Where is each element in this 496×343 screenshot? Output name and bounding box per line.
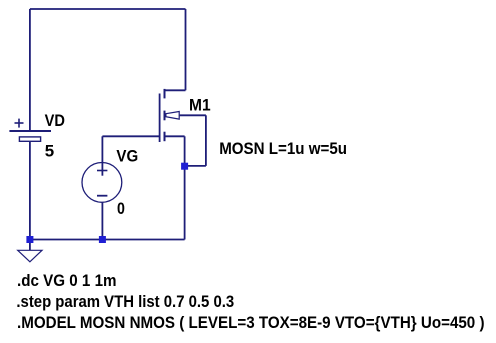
wire: drain stub horizontal xyxy=(164,89,186,91)
node: VG bottom junction xyxy=(99,236,106,243)
battery VD bottom plate rectangle xyxy=(19,137,40,141)
battery VD top plate xyxy=(9,130,51,132)
svg-text:5: 5 xyxy=(45,143,54,161)
wire: left vertical from battery top up xyxy=(29,9,31,131)
wire: bottom rail xyxy=(30,239,185,241)
svg-text:VD: VD xyxy=(45,112,66,130)
wire: top horizontal xyxy=(30,8,186,10)
battery VD plus sign xyxy=(15,122,24,124)
wire: VG bottom to rail xyxy=(101,202,103,239)
svg-text:MOSN L=1u w=5u: MOSN L=1u w=5u xyxy=(219,140,347,158)
voltage source VG circle xyxy=(82,163,122,203)
transistor M1 channel middle stub xyxy=(164,111,166,121)
wire: source stub horizontal xyxy=(165,135,185,137)
wire: right vertical down to drain xyxy=(185,9,187,90)
svg-text:.step param VTH list 0.7 0.5 0: .step param VTH list 0.7 0.5 0.3 xyxy=(16,293,234,311)
transistor M1 gate bar xyxy=(159,94,161,143)
node: source/bulk junction xyxy=(181,163,188,170)
transistor M1 bulk arrow (open, pointing left) xyxy=(166,112,179,120)
wire: down to VG plus xyxy=(101,136,103,175)
wire: battery bottom down to ground xyxy=(29,141,31,250)
transistor M1 channel bottom stub xyxy=(164,132,166,142)
transistor M1 channel top stub xyxy=(164,89,166,99)
svg-text:VG: VG xyxy=(116,148,138,166)
wire: bulk right vertical down xyxy=(205,115,207,166)
svg-text:.MODEL MOSN NMOS ( LEVEL=3 TOX: .MODEL MOSN NMOS ( LEVEL=3 TOX=8E-9 VTO=… xyxy=(17,314,485,332)
wire: bulk bottom horizontal to source node xyxy=(185,165,206,167)
svg-text:0: 0 xyxy=(117,200,125,218)
svg-text:M1: M1 xyxy=(189,96,211,114)
node: battery/ground junction xyxy=(26,236,33,243)
wire: source vertical down to bottom rail xyxy=(184,136,186,239)
VG minus sign xyxy=(97,195,107,197)
VG plus sign xyxy=(97,170,107,172)
wire: gate horizontal xyxy=(102,135,159,137)
svg-text:.dc VG 0 1 1m: .dc VG 0 1 1m xyxy=(17,272,117,290)
ground symbol xyxy=(18,250,42,261)
wire: bulk to right xyxy=(180,114,206,116)
